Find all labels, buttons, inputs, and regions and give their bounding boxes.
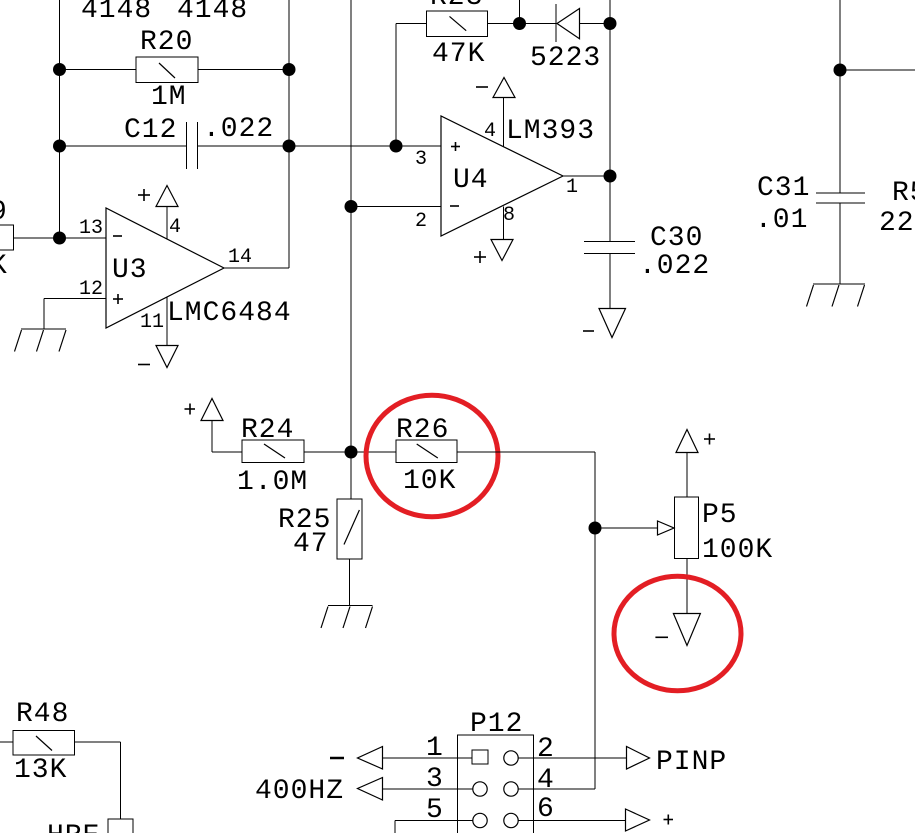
U4 V- triangle (top)	[493, 78, 515, 98]
svg-text:8: 8	[503, 204, 515, 227]
svg-text:47K: 47K	[432, 39, 485, 70]
U3 V+ stem	[166, 206, 168, 240]
svg-text:4148: 4148	[81, 0, 152, 26]
svg-text:11: 11	[140, 311, 164, 334]
wire vertical left bus	[59, 0, 61, 238]
vertical bus to U4 pin2 / R25	[350, 0, 352, 499]
svg-text:12: 12	[79, 278, 103, 301]
node dot P5 wiper	[589, 522, 602, 535]
wire pin1	[383, 757, 473, 759]
wire vertical C31 bus	[839, 0, 841, 193]
resistor R26	[396, 440, 457, 463]
resistor (partial, left edge)	[0, 225, 14, 250]
wiper arrow	[658, 521, 675, 535]
ground below U3	[15, 329, 67, 352]
wire pin6	[518, 820, 626, 822]
wire to U3 pin13	[14, 237, 107, 239]
wire right branch	[840, 69, 915, 71]
wire pin12 ground leg	[43, 299, 45, 330]
op-amp U3	[106, 208, 224, 328]
annotation red circle around R26	[366, 395, 498, 517]
svg-text:K: K	[0, 251, 8, 282]
P5 V+ plus sign	[704, 434, 715, 445]
arrow into pin3	[358, 778, 383, 801]
arrow out PINP	[627, 747, 650, 770]
U4 V- stem	[503, 97, 505, 147]
P5 V- stem	[686, 559, 688, 614]
wire R26 right	[457, 451, 595, 453]
capacitor C12	[187, 122, 198, 169]
svg-text:U3: U3	[112, 255, 148, 286]
wire stub up from diode node	[519, 0, 521, 24]
wire vertical to P12	[594, 452, 596, 789]
wire C31 to ground	[839, 203, 841, 284]
wire diode to output bus	[580, 23, 611, 25]
svg-text:47: 47	[293, 529, 329, 560]
node dot C12 left	[53, 140, 66, 153]
wire pin3	[383, 788, 474, 790]
svg-text:5223: 5223	[530, 43, 601, 74]
C30 V- triangle	[599, 309, 626, 338]
wire C12 left	[60, 145, 187, 147]
U3 V- minus sign	[138, 364, 150, 366]
U4 plus input sign	[451, 142, 460, 151]
wire R23 right to diode	[488, 23, 557, 25]
node dot C12 right / U3 out	[283, 140, 296, 153]
svg-text:LMC6484: LMC6484	[167, 298, 292, 329]
wire C30 bottom stem	[609, 254, 611, 309]
svg-text:3: 3	[415, 148, 427, 171]
node dot R20 right	[283, 63, 296, 76]
svg-text:R24: R24	[241, 415, 294, 446]
svg-text:100K: 100K	[702, 535, 773, 566]
svg-text:HRE: HRE	[47, 821, 100, 833]
svg-text:4: 4	[169, 216, 181, 239]
wire U3 output pin14	[224, 267, 289, 269]
svg-text:.022: .022	[203, 114, 274, 145]
P12 pin1 square pad	[472, 750, 488, 764]
minus sign pin1 net	[330, 757, 344, 760]
svg-text:2: 2	[415, 210, 427, 233]
wire pin4	[518, 788, 595, 790]
svg-text:C12: C12	[124, 115, 177, 146]
wire wiper	[595, 527, 657, 529]
svg-text:R5: R5	[892, 178, 915, 209]
diode D? 5223	[556, 4, 580, 42]
resistor R20	[136, 57, 198, 83]
resistor R23	[427, 11, 488, 37]
svg-text:R48: R48	[16, 699, 69, 730]
U4 V+ plus sign	[474, 251, 486, 263]
wire R20 left	[60, 69, 137, 71]
svg-text:R26: R26	[396, 415, 449, 446]
U4 minus input sign	[450, 205, 459, 207]
wire U4 pin2	[351, 206, 441, 208]
annotation red circle around P5 V-	[614, 576, 741, 691]
svg-text:9: 9	[0, 197, 8, 228]
P12 pin2 pad	[504, 751, 518, 765]
node dot U4 pin2	[345, 200, 358, 213]
svg-text:220: 220	[879, 208, 915, 239]
svg-text:C31: C31	[757, 173, 810, 204]
U3 V+ triangle	[156, 186, 178, 207]
svg-text:13: 13	[79, 217, 103, 240]
wire vertical U3 feedback bus	[288, 0, 290, 268]
C30 minus sign	[583, 330, 594, 332]
capacitor C31	[816, 193, 865, 203]
P5 V- triangle	[673, 614, 700, 646]
node dot U4 feedback	[390, 140, 403, 153]
wire U4 output	[563, 175, 610, 177]
svg-text:4: 4	[537, 765, 555, 796]
U3 plus input sign	[113, 294, 123, 304]
wire C12 right to U4 pin3	[198, 145, 442, 147]
wire pin2 to PINP	[518, 757, 627, 759]
svg-text:P12: P12	[470, 709, 523, 740]
node dot R24/R25/R26	[345, 446, 358, 459]
svg-text:1: 1	[566, 176, 578, 199]
svg-text:5: 5	[426, 795, 444, 826]
potentiometer P5	[675, 497, 699, 559]
U3 V+ plus sign	[138, 189, 150, 201]
svg-text:14: 14	[228, 246, 252, 269]
svg-text:2: 2	[537, 734, 555, 765]
ground below C31	[807, 284, 866, 307]
plus sign pin6 net	[664, 815, 674, 825]
capacitor C30	[584, 242, 635, 254]
svg-text:LM393: LM393	[506, 116, 595, 147]
R24 V+ triangle	[201, 399, 223, 421]
wire pin5	[395, 821, 473, 833]
P12 pin3 pad	[473, 782, 487, 796]
svg-text:U4: U4	[453, 165, 489, 196]
wire R24 to R26	[304, 451, 396, 453]
svg-text:1.0M: 1.0M	[237, 467, 308, 498]
P5 V- minus sign	[655, 636, 668, 638]
wire R25 top is bus above; resistor R25	[337, 499, 362, 559]
svg-text:R20: R20	[140, 27, 193, 58]
P12 pin5 pad	[473, 813, 487, 827]
node dot U3 pin13	[53, 232, 66, 245]
wire V+ to R24	[212, 420, 242, 452]
resistor R24	[242, 440, 304, 463]
U3 V- stem	[166, 297, 168, 345]
wire vertical output bus	[609, 0, 611, 241]
connector pin (bottom edge)	[108, 819, 133, 833]
arrow into pin1	[358, 747, 383, 770]
U3 V- triangle	[156, 346, 178, 368]
wire R25 to ground	[349, 559, 351, 606]
svg-text:4148: 4148	[177, 0, 248, 26]
svg-text:C30: C30	[650, 223, 703, 254]
svg-text:400HZ: 400HZ	[255, 776, 344, 807]
U3 minus input sign	[113, 235, 122, 237]
node dot diode/output bus	[604, 17, 617, 30]
wire R20 right	[198, 69, 289, 71]
wire R48 left	[0, 741, 13, 743]
svg-text:R23: R23	[430, 0, 483, 13]
svg-text:3: 3	[426, 764, 444, 795]
svg-text:6: 6	[537, 794, 555, 825]
node dot R20 left	[53, 63, 66, 76]
arrow out pin6	[626, 809, 650, 831]
wire R23 feedback top	[396, 23, 427, 25]
node dot R23/diode	[513, 17, 526, 30]
wire U3 pin12	[44, 298, 106, 300]
svg-text:P5: P5	[702, 500, 738, 531]
P5 V+ stem	[686, 452, 688, 497]
comparator U4	[441, 116, 563, 236]
R24 V+ plus sign	[185, 404, 196, 415]
node dot C31	[834, 64, 847, 77]
wire R23 feedback vertical	[395, 24, 397, 147]
svg-text:10K: 10K	[403, 466, 456, 497]
connector P12 body	[458, 735, 534, 833]
resistor R48	[13, 731, 75, 756]
P12 pin6 pad	[504, 813, 518, 827]
P12 pin4 pad	[504, 782, 518, 796]
P5 V+ triangle	[676, 430, 698, 453]
svg-text:PINP: PINP	[656, 747, 727, 778]
svg-text:.01: .01	[755, 205, 808, 236]
svg-text:4: 4	[484, 120, 496, 143]
U4 V+ triangle (bottom)	[491, 240, 513, 261]
ground below R25	[321, 606, 373, 629]
svg-text:1: 1	[426, 733, 444, 764]
wire R48 right	[75, 742, 121, 819]
svg-text:.022: .022	[639, 251, 710, 282]
svg-text:13K: 13K	[14, 755, 67, 786]
node dot U4 output	[604, 170, 617, 183]
svg-text:1M: 1M	[151, 82, 187, 113]
U4 V- minus sign	[476, 86, 488, 88]
U4 V+ stem	[503, 207, 505, 240]
